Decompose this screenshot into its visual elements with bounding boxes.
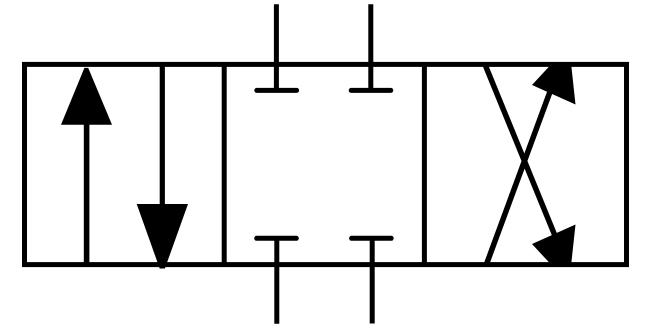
down arrow shaft <box>160 63 165 207</box>
position divider right <box>422 62 427 267</box>
top port stub 2 <box>368 4 373 90</box>
bottom blocked-port bar 2 <box>352 236 392 241</box>
bottom blocked-port bar 1 <box>257 236 297 241</box>
up arrow head <box>61 68 112 125</box>
bottom port stub 1 <box>274 238 279 323</box>
ascending line arrowhead <box>532 62 576 105</box>
descending line arrowhead <box>532 225 576 268</box>
position divider left <box>222 62 227 267</box>
bottom port stub 2 <box>370 238 375 323</box>
top blocked-port bar 1 <box>257 88 297 93</box>
top port stub 1 <box>274 4 279 90</box>
up arrow shaft <box>84 122 90 267</box>
top blocked-port bar 2 <box>351 88 391 93</box>
crossed flow line descending <box>485 65 556 238</box>
crossed flow line ascending <box>486 89 551 266</box>
valve body outline <box>25 64 627 264</box>
down arrow head <box>137 204 188 269</box>
